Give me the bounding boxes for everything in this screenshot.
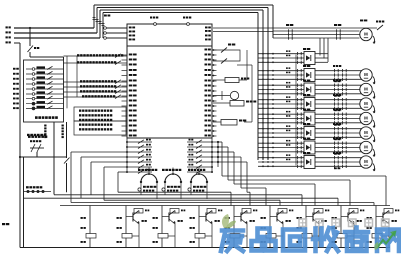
wire right feeder 2 xyxy=(267,8,269,161)
resistor R1b xyxy=(86,234,96,239)
transformer T2 xyxy=(165,174,181,182)
push-button SB6 xyxy=(26,93,64,95)
U1 right pins xyxy=(205,49,208,51)
label row above transformers xyxy=(138,169,141,171)
green sprout icon xyxy=(222,214,229,228)
driver cell V9 xyxy=(375,206,377,234)
svg-text:M: M xyxy=(364,101,368,106)
push-button SB1 xyxy=(26,68,64,70)
motor M2 xyxy=(360,69,372,81)
rail x66 lower xyxy=(66,163,68,192)
rail x23.5 xyxy=(23,157,25,248)
push-button SB9 xyxy=(26,107,64,109)
contactor KM8 xyxy=(258,157,304,159)
thermal FR3 xyxy=(315,84,362,86)
output contact right 1 xyxy=(187,141,212,143)
svg-text:M: M xyxy=(364,32,368,37)
wire row1-row2 links xyxy=(319,38,321,56)
label SB7 left xyxy=(13,98,16,100)
label input function rows xyxy=(77,54,79,56)
resistor R2a xyxy=(134,209,143,214)
output contact left 4 xyxy=(127,156,152,158)
resistor R5b xyxy=(230,234,240,239)
wire right feeder 4 xyxy=(257,13,259,161)
label SB3 left xyxy=(13,78,16,80)
resistor R4a xyxy=(207,209,216,214)
watermark 废品回收商网 xyxy=(221,228,399,252)
push-button SB3 xyxy=(26,78,64,80)
wire bottom bus xyxy=(20,247,390,249)
label V1 xyxy=(81,217,83,219)
wire loop L3 xyxy=(91,161,127,163)
label V3 xyxy=(153,217,155,219)
driver cell V8 xyxy=(340,206,342,234)
push-button SB5 xyxy=(26,88,64,90)
contactor KM1 xyxy=(258,53,304,55)
wire loop L4 xyxy=(104,166,127,168)
wire top bus 4 xyxy=(103,12,258,14)
label QS1 xyxy=(34,47,36,49)
switch SA2 xyxy=(213,50,240,61)
wire box feeds down xyxy=(53,122,55,134)
connector stubs left box xyxy=(76,56,78,97)
output contact right 6 xyxy=(187,166,212,168)
transformer T1 xyxy=(141,174,157,182)
wire right feeder 1 xyxy=(272,5,274,38)
output contact right 5 xyxy=(187,161,212,163)
faint watermark small text xyxy=(299,219,307,227)
label bottom row xyxy=(28,136,31,138)
label SB6 left xyxy=(13,93,16,95)
svg-text:M: M xyxy=(364,145,368,150)
label PE corner xyxy=(2,223,5,225)
label R4t xyxy=(215,220,217,222)
terminal X1 top xyxy=(154,23,157,26)
label R7t xyxy=(322,220,324,222)
contactor KM7 xyxy=(258,142,304,144)
motor M6 xyxy=(360,127,372,139)
contact FR0 xyxy=(336,29,338,32)
fuse FU2 xyxy=(96,8,98,34)
label SB9 left xyxy=(13,107,16,109)
node L1 L2 L3 N labels xyxy=(6,26,8,28)
resistor R7a xyxy=(314,209,323,214)
switch SA lower xyxy=(64,158,70,164)
label T3 xyxy=(188,188,191,191)
U1 left pins xyxy=(129,54,133,56)
crystal G1 xyxy=(230,101,244,107)
wire top rail bottom section xyxy=(60,205,390,207)
output contact left 7 xyxy=(127,171,152,173)
input group box B xyxy=(74,121,126,135)
fuse FU4 xyxy=(102,13,104,39)
rail x54 lower xyxy=(53,134,55,195)
output contact left 6 xyxy=(127,166,152,168)
wire loop L5 xyxy=(118,171,127,173)
resistor R3a xyxy=(170,209,179,214)
svg-text:M: M xyxy=(364,130,368,135)
wire loop L1 xyxy=(71,151,127,153)
output contact left 3 xyxy=(127,151,152,153)
label V5 xyxy=(225,217,227,219)
motor M5 xyxy=(360,112,372,124)
wire L1 xyxy=(14,27,94,29)
label SB8 left xyxy=(13,103,16,105)
label T1 xyxy=(138,188,141,191)
wire stair link xyxy=(212,141,218,143)
resistor R7b xyxy=(302,234,312,239)
label vertical 2 xyxy=(62,125,64,127)
green trend arrow xyxy=(377,233,394,248)
thermal FR7 xyxy=(315,142,362,144)
wire top bus 1 xyxy=(94,4,273,6)
resistor R9 xyxy=(225,78,239,83)
svg-text:M: M xyxy=(364,72,368,77)
svg-text:M: M xyxy=(364,159,368,164)
label R2t xyxy=(142,220,144,222)
motor M1 row xyxy=(273,30,360,32)
resistor R2b xyxy=(122,234,132,239)
output rail left xyxy=(126,138,128,172)
output contact right 7 xyxy=(187,171,212,173)
thermal FR5 xyxy=(315,113,362,115)
thermal FR2 xyxy=(315,70,362,72)
fuse FU3 xyxy=(99,10,101,38)
contactor KM5 xyxy=(258,113,304,115)
wire staircase 1 xyxy=(218,141,222,143)
dotted terminal strip xyxy=(24,191,52,193)
battery GB xyxy=(30,147,44,149)
terminal X2 top xyxy=(187,23,190,26)
wire to IC pin L1 xyxy=(106,27,127,29)
label R8t xyxy=(357,220,359,222)
label M1 xyxy=(360,20,363,22)
label V7 xyxy=(297,217,299,219)
contactor KM3 xyxy=(258,84,304,86)
label R5t xyxy=(250,220,252,222)
driver cell V6 xyxy=(269,206,271,234)
output contact left 5 xyxy=(127,161,152,163)
resistor R8b xyxy=(337,234,347,239)
contactor KM2 xyxy=(258,70,304,72)
output contact left 2 xyxy=(127,146,152,148)
label SB1 left xyxy=(13,68,16,70)
wire L3 xyxy=(14,37,100,39)
input group box A xyxy=(74,107,126,121)
label R3t xyxy=(178,220,180,222)
wire left stub 194 xyxy=(54,194,91,196)
label vertical 1 xyxy=(44,125,46,127)
svg-text:M: M xyxy=(364,116,368,121)
resistor R5a xyxy=(242,209,251,214)
label aux 4-terms xyxy=(27,134,30,136)
meter P1 xyxy=(230,91,238,99)
output rail right xyxy=(211,138,213,172)
input terminal box xyxy=(24,60,64,122)
label V8 xyxy=(332,217,334,219)
resistor R3b xyxy=(158,234,168,239)
wire N xyxy=(14,42,20,44)
node junction L1 xyxy=(29,27,31,29)
junction column x218 xyxy=(217,142,219,167)
label group 3n44FA xyxy=(35,116,38,119)
wire loop L2 xyxy=(81,156,127,158)
wire h157 xyxy=(20,156,67,158)
label V4 xyxy=(190,217,192,219)
wire to IC pin L3 xyxy=(106,37,127,39)
resistor R9a xyxy=(384,209,393,214)
label SB4 left xyxy=(13,83,16,85)
wire relay feed rail xyxy=(295,55,297,166)
wire top bus 2 xyxy=(97,7,268,9)
motor M4 xyxy=(360,98,372,110)
label V6 xyxy=(261,217,263,219)
driver cell V5 xyxy=(233,206,235,234)
PLC U1 body xyxy=(127,24,212,138)
wire staircase 3 xyxy=(218,151,234,153)
label T2 xyxy=(162,188,165,191)
thermal FR4 xyxy=(315,99,362,101)
output contact right 4 xyxy=(187,156,212,158)
push-button SB8 xyxy=(26,103,64,105)
resistor R6a xyxy=(278,209,287,214)
label V9 xyxy=(367,217,369,219)
thermal FR8 xyxy=(315,157,362,159)
motor M7 xyxy=(360,141,372,153)
wire left stub 198 xyxy=(24,197,82,199)
label FU xyxy=(104,15,107,17)
wire N down-rail xyxy=(19,43,21,248)
svg-text:M: M xyxy=(364,87,368,92)
resistor R4b xyxy=(195,234,205,239)
contact KM0 xyxy=(288,29,290,32)
wire L2 xyxy=(14,32,97,34)
driver cell V4 xyxy=(198,206,200,234)
switch QS1 xyxy=(29,28,31,46)
output contact left 1 xyxy=(127,141,152,143)
motor M8 xyxy=(360,156,372,168)
driver cell V2 xyxy=(125,206,127,234)
push-button SB2 xyxy=(26,73,64,75)
U1 left pin labels top xyxy=(129,27,132,29)
switch SA top right xyxy=(377,25,383,30)
label R6t xyxy=(286,220,288,222)
fuse FU1 xyxy=(93,5,95,28)
motor M3 xyxy=(360,83,372,95)
wire input rows to IC xyxy=(64,55,128,57)
wire to IC pin L2 xyxy=(106,32,127,34)
resistor R6b xyxy=(266,234,276,239)
wire right feeder 3 xyxy=(262,10,264,160)
wire right pins to bundle xyxy=(251,65,253,122)
driver cell V1 xyxy=(89,206,91,234)
contactor KM6 xyxy=(258,128,304,130)
output contact right 2 xyxy=(187,146,212,148)
wire staircase 2 xyxy=(218,146,228,148)
push-button SB4 xyxy=(26,83,64,85)
output contact right 3 xyxy=(187,151,212,153)
U1 right pin labels top xyxy=(205,27,208,29)
wires group to IC xyxy=(126,110,127,112)
motor M1 xyxy=(360,28,372,40)
label R9t xyxy=(392,220,394,222)
contactor KM4 xyxy=(258,99,304,101)
thermal FR6 xyxy=(315,128,362,130)
wire staircase 5 xyxy=(218,161,247,163)
label SB5 left xyxy=(13,88,16,90)
driver cell V3 xyxy=(161,206,163,234)
push-button SB7 xyxy=(26,98,64,100)
resistor R8a xyxy=(349,209,358,214)
label SB2 left xyxy=(13,73,16,75)
label strip xyxy=(26,186,29,188)
wire staircase 4 xyxy=(218,156,241,158)
component C1 xyxy=(221,120,237,126)
driver cell V7 xyxy=(305,206,307,234)
transformer T3 xyxy=(191,174,207,182)
wire top bus 3 xyxy=(100,9,263,11)
label V2 xyxy=(117,217,119,219)
resistor R9b xyxy=(372,234,382,239)
wire QS to input box xyxy=(30,56,64,58)
